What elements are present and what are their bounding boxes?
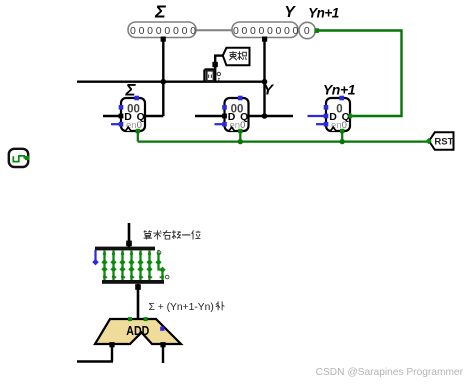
svg-text:CSDN @Sarapines Programmer: CSDN @Sarapines Programmer <box>316 367 464 378</box>
svg-text:ADD: ADD <box>126 324 149 338</box>
svg-text:Σ: Σ <box>154 2 166 22</box>
svg-text:0: 0 <box>164 25 170 37</box>
svg-text:0: 0 <box>241 25 247 37</box>
svg-text:0: 0 <box>139 25 145 37</box>
svg-text:Σ + (Yn+1-Yn): Σ + (Yn+1-Yn) <box>149 302 214 313</box>
svg-text:0: 0 <box>130 25 136 37</box>
svg-text:Y: Y <box>284 4 296 21</box>
svg-text:0: 0 <box>258 25 264 37</box>
svg-text:0: 0 <box>275 25 281 37</box>
svg-text:Yn+1: Yn+1 <box>323 82 356 98</box>
svg-text:0: 0 <box>156 25 162 37</box>
svg-text:0: 0 <box>304 25 310 37</box>
svg-text:0: 0 <box>267 25 273 37</box>
svg-text:0: 0 <box>250 25 256 37</box>
svg-text:0: 0 <box>292 25 298 37</box>
svg-text:0: 0 <box>147 25 153 37</box>
svg-text:RST: RST <box>434 137 453 148</box>
svg-text:0: 0 <box>173 25 179 37</box>
svg-text:Yn+1: Yn+1 <box>308 6 339 21</box>
svg-text:0: 0 <box>284 25 290 37</box>
svg-text:0: 0 <box>182 25 188 37</box>
svg-text:0: 0 <box>190 25 196 37</box>
svg-text:0: 0 <box>233 25 239 37</box>
